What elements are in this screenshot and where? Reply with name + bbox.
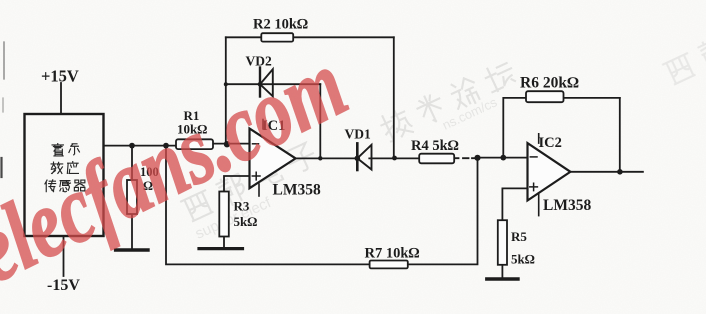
svg-text:R6 20kΩ: R6 20kΩ [520,75,579,92]
svg-text:R7 10kΩ: R7 10kΩ [365,246,420,262]
svg-text:LM358: LM358 [273,182,321,199]
svg-text:IC2: IC2 [539,135,562,151]
svg-text:5kΩ: 5kΩ [511,252,535,267]
svg-text:R2 10kΩ: R2 10kΩ [253,17,308,33]
svg-text:R3: R3 [234,199,250,214]
svg-text:R4 5kΩ: R4 5kΩ [411,138,459,154]
svg-text:-15V: -15V [47,277,80,294]
svg-text:5kΩ: 5kΩ [234,214,258,229]
svg-text:+15V: +15V [41,67,79,86]
svg-text:R5: R5 [511,229,527,244]
svg-text:LM358: LM358 [543,197,591,214]
